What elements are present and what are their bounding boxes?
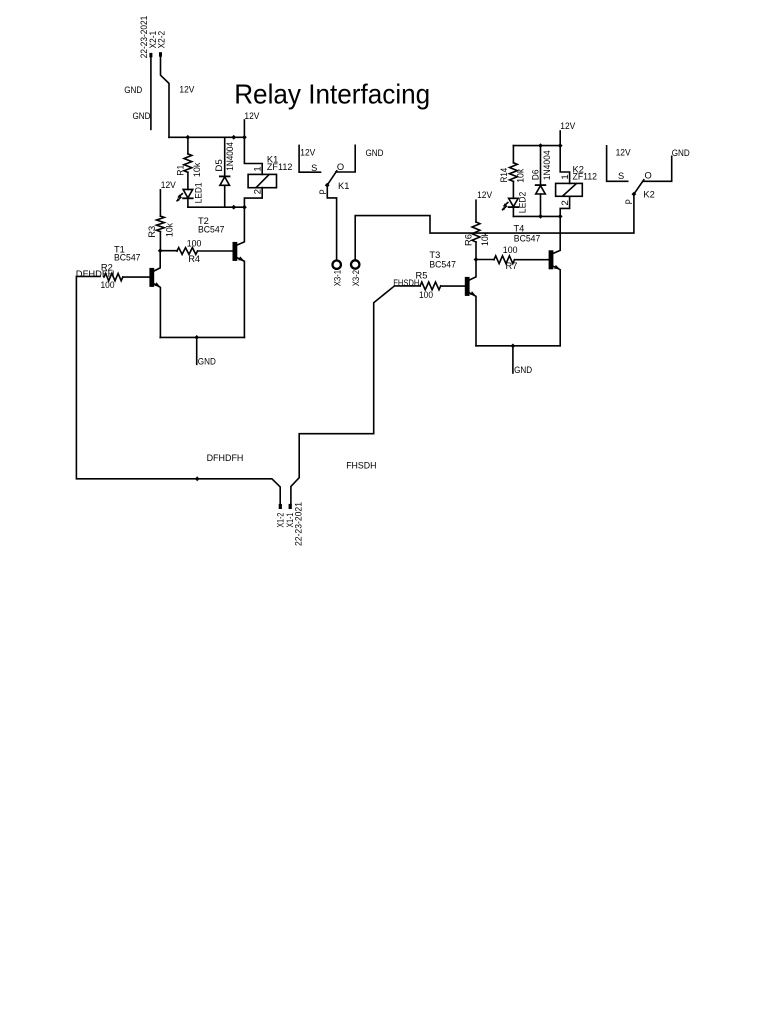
svg-text:X3-2: X3-2 [351, 270, 361, 286]
svg-text:X2-2: X2-2 [156, 31, 166, 49]
svg-text:1N4004: 1N4004 [225, 142, 235, 171]
svg-text:D5: D5 [214, 159, 224, 171]
svg-text:10k: 10k [480, 232, 490, 246]
svg-text:BC547: BC547 [429, 260, 456, 270]
svg-text:S: S [311, 163, 317, 173]
svg-text:R7: R7 [506, 261, 518, 271]
svg-text:ZF112: ZF112 [573, 171, 598, 181]
svg-text:T4: T4 [514, 224, 525, 234]
svg-text:P: P [318, 189, 328, 194]
svg-text:100: 100 [187, 238, 202, 248]
svg-text:P: P [624, 199, 634, 204]
svg-text:22-23-2021: 22-23-2021 [293, 502, 303, 546]
svg-text:12V: 12V [477, 190, 493, 200]
svg-text:R6: R6 [464, 234, 474, 246]
svg-text:BC547: BC547 [198, 224, 225, 234]
svg-text:GND: GND [133, 111, 151, 121]
svg-text:R4: R4 [188, 254, 200, 264]
svg-text:12V: 12V [179, 85, 195, 95]
svg-text:100: 100 [419, 290, 433, 300]
svg-text:GND: GND [672, 148, 690, 158]
svg-text:Relay Interfacing: Relay Interfacing [234, 79, 430, 110]
svg-text:FHSDH: FHSDH [393, 278, 419, 288]
svg-text:10k: 10k [192, 162, 202, 177]
svg-text:100: 100 [503, 245, 518, 255]
svg-text:12V: 12V [244, 111, 260, 121]
svg-text:12V: 12V [300, 148, 316, 158]
svg-text:GND: GND [366, 148, 384, 158]
svg-text:R1: R1 [176, 165, 186, 176]
svg-text:FHSDH: FHSDH [346, 461, 376, 471]
svg-text:K1: K1 [338, 181, 349, 191]
svg-text:O: O [337, 162, 344, 172]
svg-text:K2: K2 [643, 190, 654, 200]
svg-text:GND: GND [514, 365, 532, 375]
svg-text:2: 2 [253, 189, 263, 194]
svg-text:12V: 12V [560, 121, 576, 131]
svg-text:R14: R14 [499, 168, 509, 183]
svg-text:2: 2 [560, 200, 570, 205]
svg-text:LED2: LED2 [518, 192, 528, 214]
svg-text:D6: D6 [530, 170, 540, 181]
svg-text:12V: 12V [616, 147, 632, 157]
svg-text:X3-1: X3-1 [333, 270, 343, 286]
svg-text:S: S [618, 171, 624, 181]
svg-text:O: O [645, 171, 652, 181]
svg-text:R3: R3 [147, 226, 157, 238]
svg-text:1N4004: 1N4004 [542, 150, 552, 180]
svg-text:12V: 12V [161, 180, 177, 190]
svg-text:100: 100 [101, 280, 115, 290]
svg-text:10k: 10k [165, 223, 175, 237]
svg-text:GND: GND [124, 85, 142, 95]
svg-text:LED1: LED1 [194, 182, 204, 203]
svg-text:BC547: BC547 [114, 253, 141, 263]
svg-text:ZF112: ZF112 [267, 162, 293, 172]
svg-text:DFHDFH: DFHDFH [207, 453, 244, 463]
svg-text:10k: 10k [516, 168, 526, 182]
svg-text:GND: GND [198, 356, 216, 366]
svg-text:BC547: BC547 [514, 234, 541, 244]
svg-text:1: 1 [253, 166, 263, 171]
svg-text:DFHDFH: DFHDFH [76, 269, 115, 279]
svg-text:1: 1 [560, 174, 570, 179]
